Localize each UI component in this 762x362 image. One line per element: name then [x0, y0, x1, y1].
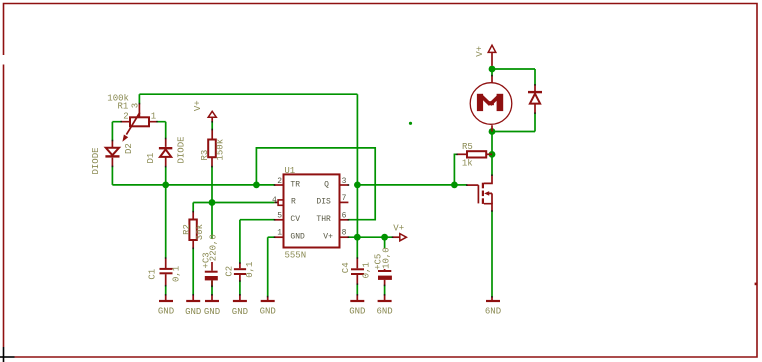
svg-text:5: 5	[277, 211, 282, 220]
svg-text:2: 2	[123, 111, 128, 121]
svg-text:3: 3	[130, 103, 140, 108]
svg-text:C4: C4	[341, 262, 351, 273]
svg-text:THR: THR	[316, 215, 331, 224]
svg-text:GND: GND	[185, 307, 201, 317]
svg-text:D2: D2	[124, 143, 134, 154]
svg-text:V+: V+	[475, 46, 485, 57]
svg-text:GND: GND	[204, 307, 220, 317]
svg-text:DIS: DIS	[316, 197, 331, 206]
svg-text:7: 7	[342, 194, 347, 203]
svg-text:6ND: 6ND	[485, 306, 501, 316]
svg-text:3: 3	[342, 177, 347, 186]
svg-text:4: 4	[272, 196, 277, 205]
svg-text:2: 2	[277, 177, 282, 186]
svg-text:DIODE: DIODE	[91, 147, 101, 174]
svg-text:V+: V+	[323, 232, 333, 241]
svg-text:30k: 30k	[195, 224, 205, 240]
svg-text:R2: R2	[182, 224, 192, 235]
svg-text:V+: V+	[193, 100, 203, 111]
svg-text:GND: GND	[158, 307, 174, 317]
svg-text:Q: Q	[324, 180, 329, 189]
svg-text:150k: 150k	[216, 139, 226, 161]
svg-text:0,1: 0,1	[171, 266, 181, 282]
svg-text:C2: C2	[225, 266, 235, 277]
svg-text:R5: R5	[462, 142, 473, 152]
svg-text:R1: R1	[118, 102, 129, 112]
svg-text:GND: GND	[232, 307, 248, 317]
svg-text:555N: 555N	[285, 251, 307, 261]
svg-text:R: R	[291, 197, 296, 206]
svg-text:1: 1	[277, 229, 282, 238]
svg-text:R3: R3	[200, 150, 210, 161]
svg-text:U1: U1	[284, 166, 295, 176]
svg-text:10,0: 10,0	[382, 247, 392, 269]
svg-text:6ND: 6ND	[376, 306, 392, 316]
svg-text:1k: 1k	[462, 159, 473, 169]
svg-text:CV: CV	[290, 215, 300, 224]
svg-text:0,1: 0,1	[362, 262, 372, 278]
svg-text:C1: C1	[148, 269, 158, 280]
svg-text:D1: D1	[146, 153, 156, 164]
svg-text:220,0: 220,0	[209, 234, 219, 261]
svg-text:GND: GND	[290, 232, 305, 241]
svg-text:GND: GND	[349, 306, 365, 316]
svg-text:1: 1	[151, 111, 156, 121]
svg-text:8: 8	[342, 229, 347, 238]
svg-text:TR: TR	[290, 180, 300, 189]
svg-text:0,1: 0,1	[245, 262, 255, 278]
svg-text:6: 6	[342, 211, 347, 220]
svg-text:DIODE: DIODE	[177, 136, 187, 163]
svg-text:V+: V+	[393, 223, 404, 233]
svg-text:GND: GND	[260, 307, 276, 317]
